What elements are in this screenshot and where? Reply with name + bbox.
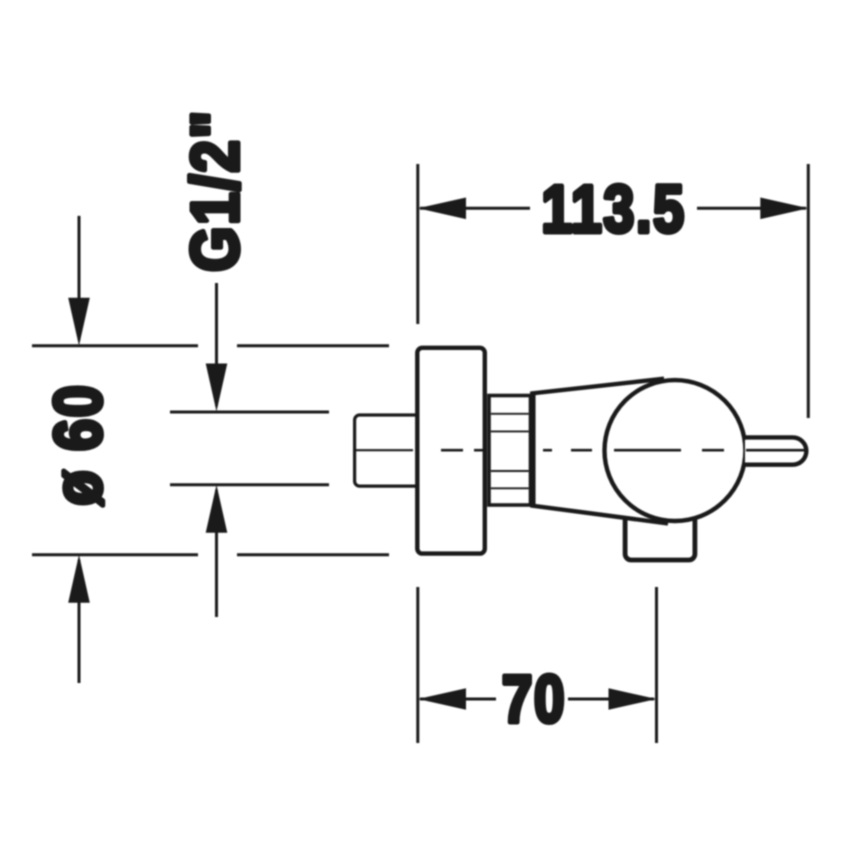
wall flange escutcheon: [417, 348, 485, 554]
arrowhead 113.5 left: [418, 198, 466, 220]
dimension line 70: [420, 698, 654, 701]
outlet spout (bottom port): [625, 495, 695, 560]
o60 dimension shafts: [78, 216, 81, 683]
centerline (dash-dot axis): [353, 449, 806, 451]
arrowhead 113.5 right: [760, 198, 808, 220]
knurled adjuster ring: [489, 396, 531, 506]
svg-text:70: 70: [502, 662, 566, 736]
extension line flange bottom (o60 lower): [32, 553, 389, 556]
svg-text:G1/2": G1/2": [178, 109, 253, 272]
arrowhead 70 right: [609, 688, 657, 710]
extension line nut top (G1/2 upper): [170, 411, 329, 414]
knurl groove line 4: [491, 487, 529, 489]
G1/2 dimension shafts: [215, 283, 218, 617]
svg-text:113.5: 113.5: [541, 172, 685, 247]
arrowhead G1/2 top (down): [206, 364, 228, 412]
extension line vertical outlet axis (70): [655, 587, 658, 743]
svg-text:ø 60: ø 60: [41, 384, 116, 506]
extension line vertical left upper (113.5): [416, 164, 419, 324]
arrowhead o60 bottom (up): [68, 555, 90, 603]
valve body taper bottom edge: [531, 506, 668, 524]
extension line vertical left lower (70): [416, 587, 419, 743]
extension line vertical right (113.5 at handle tip): [807, 164, 810, 418]
valve body taper fill: [531, 378, 678, 525]
hex connection nut G1/2: [355, 415, 420, 486]
arrowhead G1/2 bottom (up): [206, 485, 228, 533]
valve head circle: [605, 380, 746, 521]
extension line nut bottom (G1/2 lower): [170, 483, 329, 486]
valve body taper top edge: [531, 379, 664, 394]
arrowhead o60 top (down): [68, 298, 90, 346]
dimension line 113.5: [420, 207, 806, 210]
knurl groove line 1: [491, 413, 529, 415]
extension line flange top (o60 upper): [32, 344, 389, 347]
knurl right edge bar: [530, 392, 536, 508]
arrowhead 70 left: [418, 688, 466, 710]
handle lever outline: [745, 437, 806, 464]
knurl groove line 2: [491, 430, 529, 432]
handle lever fill (masks circle arc at mouth): [745, 440, 793, 463]
knurl groove line 3: [491, 470, 529, 472]
